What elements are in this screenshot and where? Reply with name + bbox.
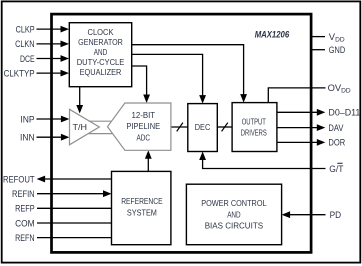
svg-text:SYSTEM: SYSTEM <box>127 208 157 218</box>
svg-text:AND: AND <box>94 47 107 57</box>
svg-text:DCE: DCE <box>20 53 35 64</box>
wire REFP <box>37 207 112 209</box>
svg-text:CLOCK: CLOCK <box>88 27 114 37</box>
pin label G/T with overline <box>329 163 343 174</box>
svg-text:CLKTYP: CLKTYP <box>4 67 35 78</box>
svg-text:DAV: DAV <box>328 122 344 133</box>
block: clock generator and duty-cycle equalizer <box>69 23 131 87</box>
svg-text:INN: INN <box>20 132 35 143</box>
svg-text:PD: PD <box>330 209 342 220</box>
wire clock to T/H (arrow down) <box>76 87 83 114</box>
block: output drivers <box>232 103 277 152</box>
wire DOR (output, arrow right) <box>277 139 325 146</box>
svg-text:DRIVERS: DRIVERS <box>241 127 267 137</box>
wire ADC to DEC with bus slash <box>171 123 188 132</box>
wire DCE <box>37 55 70 62</box>
wire CLKP <box>37 26 70 33</box>
svg-text:REFIN: REFIN <box>12 188 35 199</box>
wire D0-D11 (output, arrow right) <box>277 109 325 116</box>
svg-text:POWER CONTROL: POWER CONTROL <box>201 198 267 208</box>
svg-text:AND: AND <box>227 210 240 220</box>
svg-text:D0–D11: D0–D11 <box>328 107 360 118</box>
wire clock to output drivers (arrow down) <box>132 45 247 103</box>
svg-text:12-BIT: 12-BIT <box>131 110 155 120</box>
svg-text:REFERENCE: REFERENCE <box>121 196 163 206</box>
wire DEC to output drivers with bus slash <box>217 123 232 132</box>
wire REFN <box>37 237 112 239</box>
svg-text:GENERATOR: GENERATOR <box>78 37 123 47</box>
wire reference system to ADC (arrow up) <box>145 150 152 171</box>
svg-text:GND: GND <box>329 44 346 55</box>
svg-text:T/H: T/H <box>73 122 88 132</box>
block: power control and bias circuits <box>186 184 281 245</box>
wire INN <box>37 134 70 141</box>
svg-text:OUTPUT: OUTPUT <box>242 116 267 126</box>
svg-text:DEC: DEC <box>195 122 211 132</box>
wire clock to ADC (arrow down) <box>132 66 150 103</box>
svg-text:DOR: DOR <box>328 137 345 148</box>
wire COM <box>37 222 112 224</box>
wire INP <box>37 116 70 123</box>
wire VDD stub <box>311 36 325 38</box>
svg-text:REFP: REFP <box>15 203 35 214</box>
svg-text:PIPELINE: PIPELINE <box>126 121 160 131</box>
block: 12-bit pipeline ADC (left-pointing pentagon) <box>108 103 171 150</box>
svg-text:COM: COM <box>15 217 35 228</box>
wire REFIN <box>37 190 112 197</box>
svg-text:BIAS CIRCUITS: BIAS CIRCUITS <box>205 221 264 231</box>
svg-text:ADC: ADC <box>137 132 151 142</box>
wire bowtie connector T/H to ADC <box>88 121 112 133</box>
wire CLKTYP <box>37 70 70 77</box>
svg-text:EQUALIZER: EQUALIZER <box>80 67 122 77</box>
wire CLKN <box>37 41 70 48</box>
svg-text:G/T: G/T <box>329 163 343 174</box>
wire OVDD to output drivers top <box>268 88 325 103</box>
block: T/H amplifier triangle <box>70 109 100 145</box>
svg-text:MAX1206: MAX1206 <box>255 29 290 40</box>
svg-text:CLKN: CLKN <box>15 38 35 49</box>
svg-text:INP: INP <box>20 113 34 124</box>
wire G/T to DEC bottom (arrow up) <box>199 152 325 169</box>
wire clock to DEC (arrow down) <box>132 54 206 103</box>
wire DAV (output, arrow right) <box>277 124 325 131</box>
block: reference system <box>112 171 171 244</box>
svg-text:REFN: REFN <box>15 232 35 243</box>
svg-text:REFOUT: REFOUT <box>3 173 35 184</box>
block: DEC <box>188 104 218 152</box>
wire PD (input, arrow left into power box) <box>282 211 326 218</box>
wire GND stub <box>311 49 325 51</box>
svg-text:DUTY-CYCLE: DUTY-CYCLE <box>77 57 125 67</box>
chip boundary (thick border) <box>52 14 312 252</box>
wire REFOUT (output, arrow points left) <box>37 176 112 183</box>
svg-text:CLKP: CLKP <box>16 23 35 34</box>
